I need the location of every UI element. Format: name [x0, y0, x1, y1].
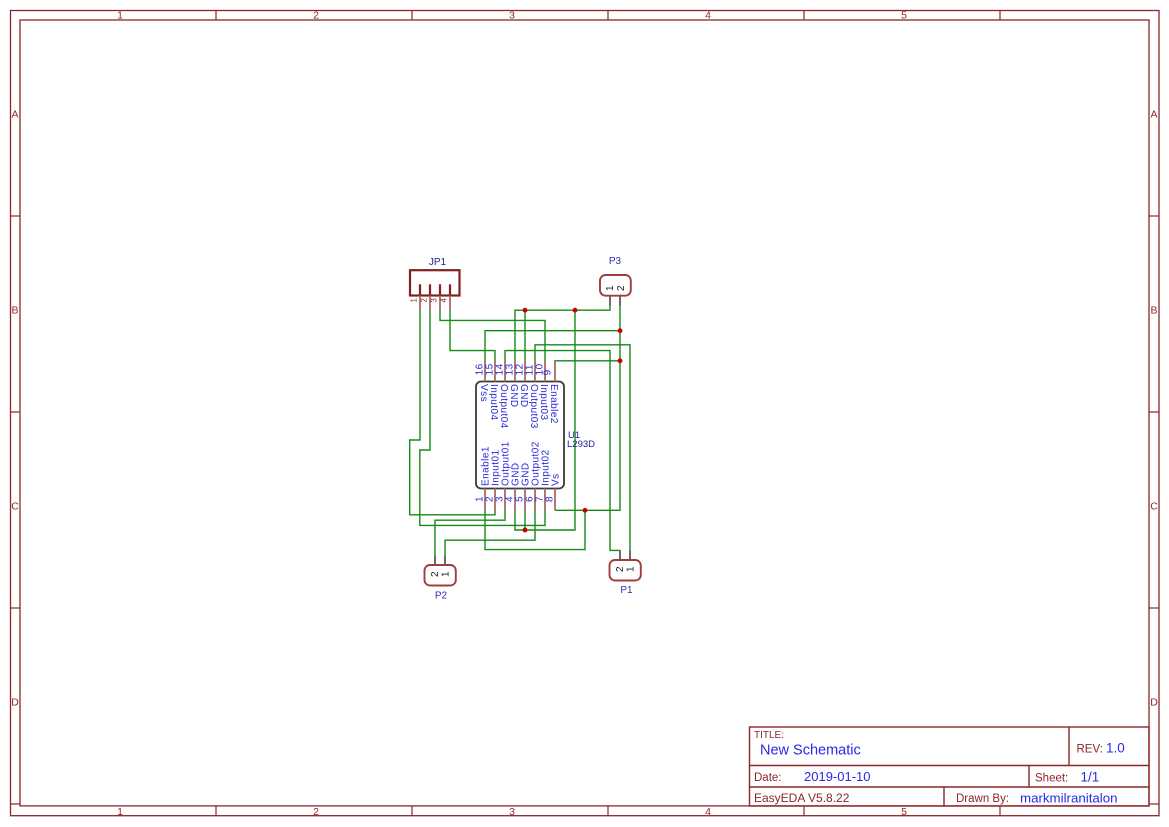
row letters left — [11, 109, 19, 709]
junction dot GND bottom — [523, 528, 528, 533]
connector P3 body — [600, 275, 631, 296]
title block outline — [750, 727, 1150, 806]
wire power net: U1.9 branch — [555, 360, 620, 362]
svg-text:4: 4 — [705, 806, 711, 818]
U1 bottom pin stubs 1..8 — [485, 489, 555, 511]
title block Date label — [754, 772, 782, 784]
title block sheet value — [1081, 770, 1100, 785]
svg-text:1.0: 1.0 — [1106, 741, 1125, 756]
svg-text:1/1: 1/1 — [1081, 770, 1100, 785]
title block TITLE label — [754, 730, 784, 741]
U1 top pin names — [478, 384, 559, 429]
svg-text:1: 1 — [626, 566, 637, 572]
U1 top pin stubs 16..9 — [485, 361, 555, 382]
svg-text:C: C — [11, 501, 19, 513]
IC U1 reference label — [568, 430, 580, 441]
svg-text:Output04: Output04 — [498, 384, 509, 429]
wire U1.14 to P1.2 — [505, 351, 620, 551]
P3 pin stubs — [610, 296, 620, 306]
JP1 pin stubs — [420, 296, 450, 311]
junction dot power Enable1 — [583, 508, 588, 513]
JP1 pin numbers — [410, 298, 449, 303]
svg-text:9: 9 — [543, 369, 554, 375]
svg-text:L293D: L293D — [567, 439, 595, 450]
wire U1.3 to P2.2 — [435, 511, 505, 557]
svg-text:Vs: Vs — [551, 473, 562, 486]
svg-text:2: 2 — [616, 285, 627, 291]
svg-text:B: B — [11, 305, 18, 317]
wire JP1.3 to U1.10 — [440, 310, 545, 362]
column ticks top — [216, 11, 1000, 21]
svg-text:REV:: REV: — [1077, 744, 1103, 756]
svg-text:P1: P1 — [620, 585, 633, 596]
P1 pin stubs — [620, 551, 630, 560]
title block Sheet label — [1035, 773, 1068, 785]
svg-text:New Schematic: New Schematic — [760, 743, 861, 759]
svg-text:3: 3 — [509, 10, 515, 22]
svg-text:2: 2 — [430, 571, 441, 577]
U1 bottom pin numbers — [475, 496, 556, 502]
svg-text:TITLE:: TITLE: — [754, 730, 784, 741]
svg-text:JP1: JP1 — [429, 257, 447, 268]
svg-text:1: 1 — [605, 285, 616, 291]
wire U1.11 to P1.1 — [535, 345, 630, 551]
junction dot GND at U1.12 — [523, 308, 528, 313]
connector JP1 label — [429, 257, 447, 268]
connector P2 label — [435, 591, 448, 602]
connector P2 body — [425, 565, 456, 586]
svg-text:4: 4 — [705, 10, 711, 22]
svg-text:5: 5 — [901, 10, 907, 22]
wire power net: P3.2 vertical down to U1.8 — [555, 305, 620, 510]
svg-text:1: 1 — [117, 10, 123, 22]
svg-text:2: 2 — [615, 566, 626, 572]
svg-text:A: A — [1150, 109, 1157, 121]
wire GND net: U1.12 branch — [524, 310, 526, 361]
junction dot power Vss — [618, 328, 623, 333]
svg-text:Input04: Input04 — [488, 384, 499, 421]
connector P1 label — [620, 585, 633, 596]
title block REV label — [1077, 744, 1103, 756]
svg-text:5: 5 — [901, 806, 907, 818]
junction dot power Enable2 — [618, 358, 623, 363]
U1 top pin numbers — [475, 363, 554, 375]
svg-text:3: 3 — [509, 806, 515, 818]
title block title text — [760, 743, 861, 759]
svg-text:D: D — [1150, 697, 1158, 709]
svg-text:8: 8 — [545, 496, 556, 502]
svg-text:2: 2 — [420, 298, 429, 302]
wire GND net top: U1.13 to P3.1 — [515, 305, 610, 361]
svg-text:C: C — [1150, 501, 1158, 513]
svg-text:P3: P3 — [609, 256, 622, 267]
svg-text:Output03: Output03 — [528, 384, 539, 429]
title block author — [1020, 791, 1118, 806]
U1 bottom pin names — [481, 441, 562, 486]
svg-text:GND: GND — [518, 384, 529, 408]
svg-text:Enable2: Enable2 — [548, 384, 559, 424]
wire power net: U1.1 branch — [485, 510, 585, 549]
column numbers top — [117, 10, 907, 22]
row letters right — [1150, 109, 1158, 709]
IC U1 body — [476, 382, 564, 489]
svg-text:2: 2 — [313, 806, 319, 818]
connector P3 label — [609, 256, 622, 267]
wire JP1.1 to U1.2 — [410, 310, 495, 515]
JP1 inner pin marks — [420, 284, 450, 295]
svg-text:1: 1 — [441, 571, 452, 577]
column numbers bottom — [117, 806, 907, 818]
wire GND net vertical branch — [515, 310, 575, 530]
wire JP1.2 to U1.7 — [420, 310, 545, 526]
title block Drawn By label — [956, 793, 1009, 805]
connector P1 body — [610, 560, 641, 581]
svg-text:D: D — [11, 697, 19, 709]
svg-text:GND: GND — [508, 384, 519, 408]
svg-text:P2: P2 — [435, 591, 448, 602]
wire GND net: U1.5 branch — [524, 511, 526, 531]
wire U1.6 to P2.1 — [445, 511, 535, 557]
svg-text:EasyEDA V5.8.22: EasyEDA V5.8.22 — [754, 791, 850, 805]
svg-text:1: 1 — [117, 806, 123, 818]
svg-text:Date:: Date: — [754, 772, 782, 784]
svg-text:3: 3 — [430, 298, 439, 302]
wire power net: U1.16 to P3.2 vertical — [485, 331, 620, 361]
svg-text:2: 2 — [313, 10, 319, 22]
svg-text:1: 1 — [410, 298, 419, 302]
P1 pin numbers — [615, 566, 637, 572]
wire JP1.4 to U1.15 — [450, 310, 495, 362]
title block rev value — [1106, 741, 1125, 756]
svg-text:Input03: Input03 — [538, 384, 549, 421]
P3 pin numbers — [605, 285, 627, 291]
junction dot GND vertical — [573, 308, 578, 313]
connector JP1 body — [410, 270, 460, 295]
row ticks right — [1149, 216, 1159, 804]
row ticks left — [11, 216, 21, 804]
svg-text:2019-01-10: 2019-01-10 — [804, 769, 871, 784]
svg-text:Drawn By:: Drawn By: — [956, 793, 1009, 805]
svg-text:B: B — [1150, 305, 1157, 317]
title block EasyEDA version — [754, 791, 850, 805]
title block date value — [804, 769, 871, 784]
svg-text:Vss: Vss — [478, 384, 489, 402]
IC U1 value label L293D — [567, 439, 595, 450]
column ticks bottom — [216, 806, 1000, 816]
svg-text:markmilranitalon: markmilranitalon — [1020, 791, 1118, 806]
svg-text:A: A — [11, 109, 18, 121]
svg-text:Sheet:: Sheet: — [1035, 773, 1068, 785]
P2 pin numbers — [430, 571, 452, 577]
P2 pin stubs — [435, 556, 445, 565]
svg-text:4: 4 — [440, 298, 449, 303]
